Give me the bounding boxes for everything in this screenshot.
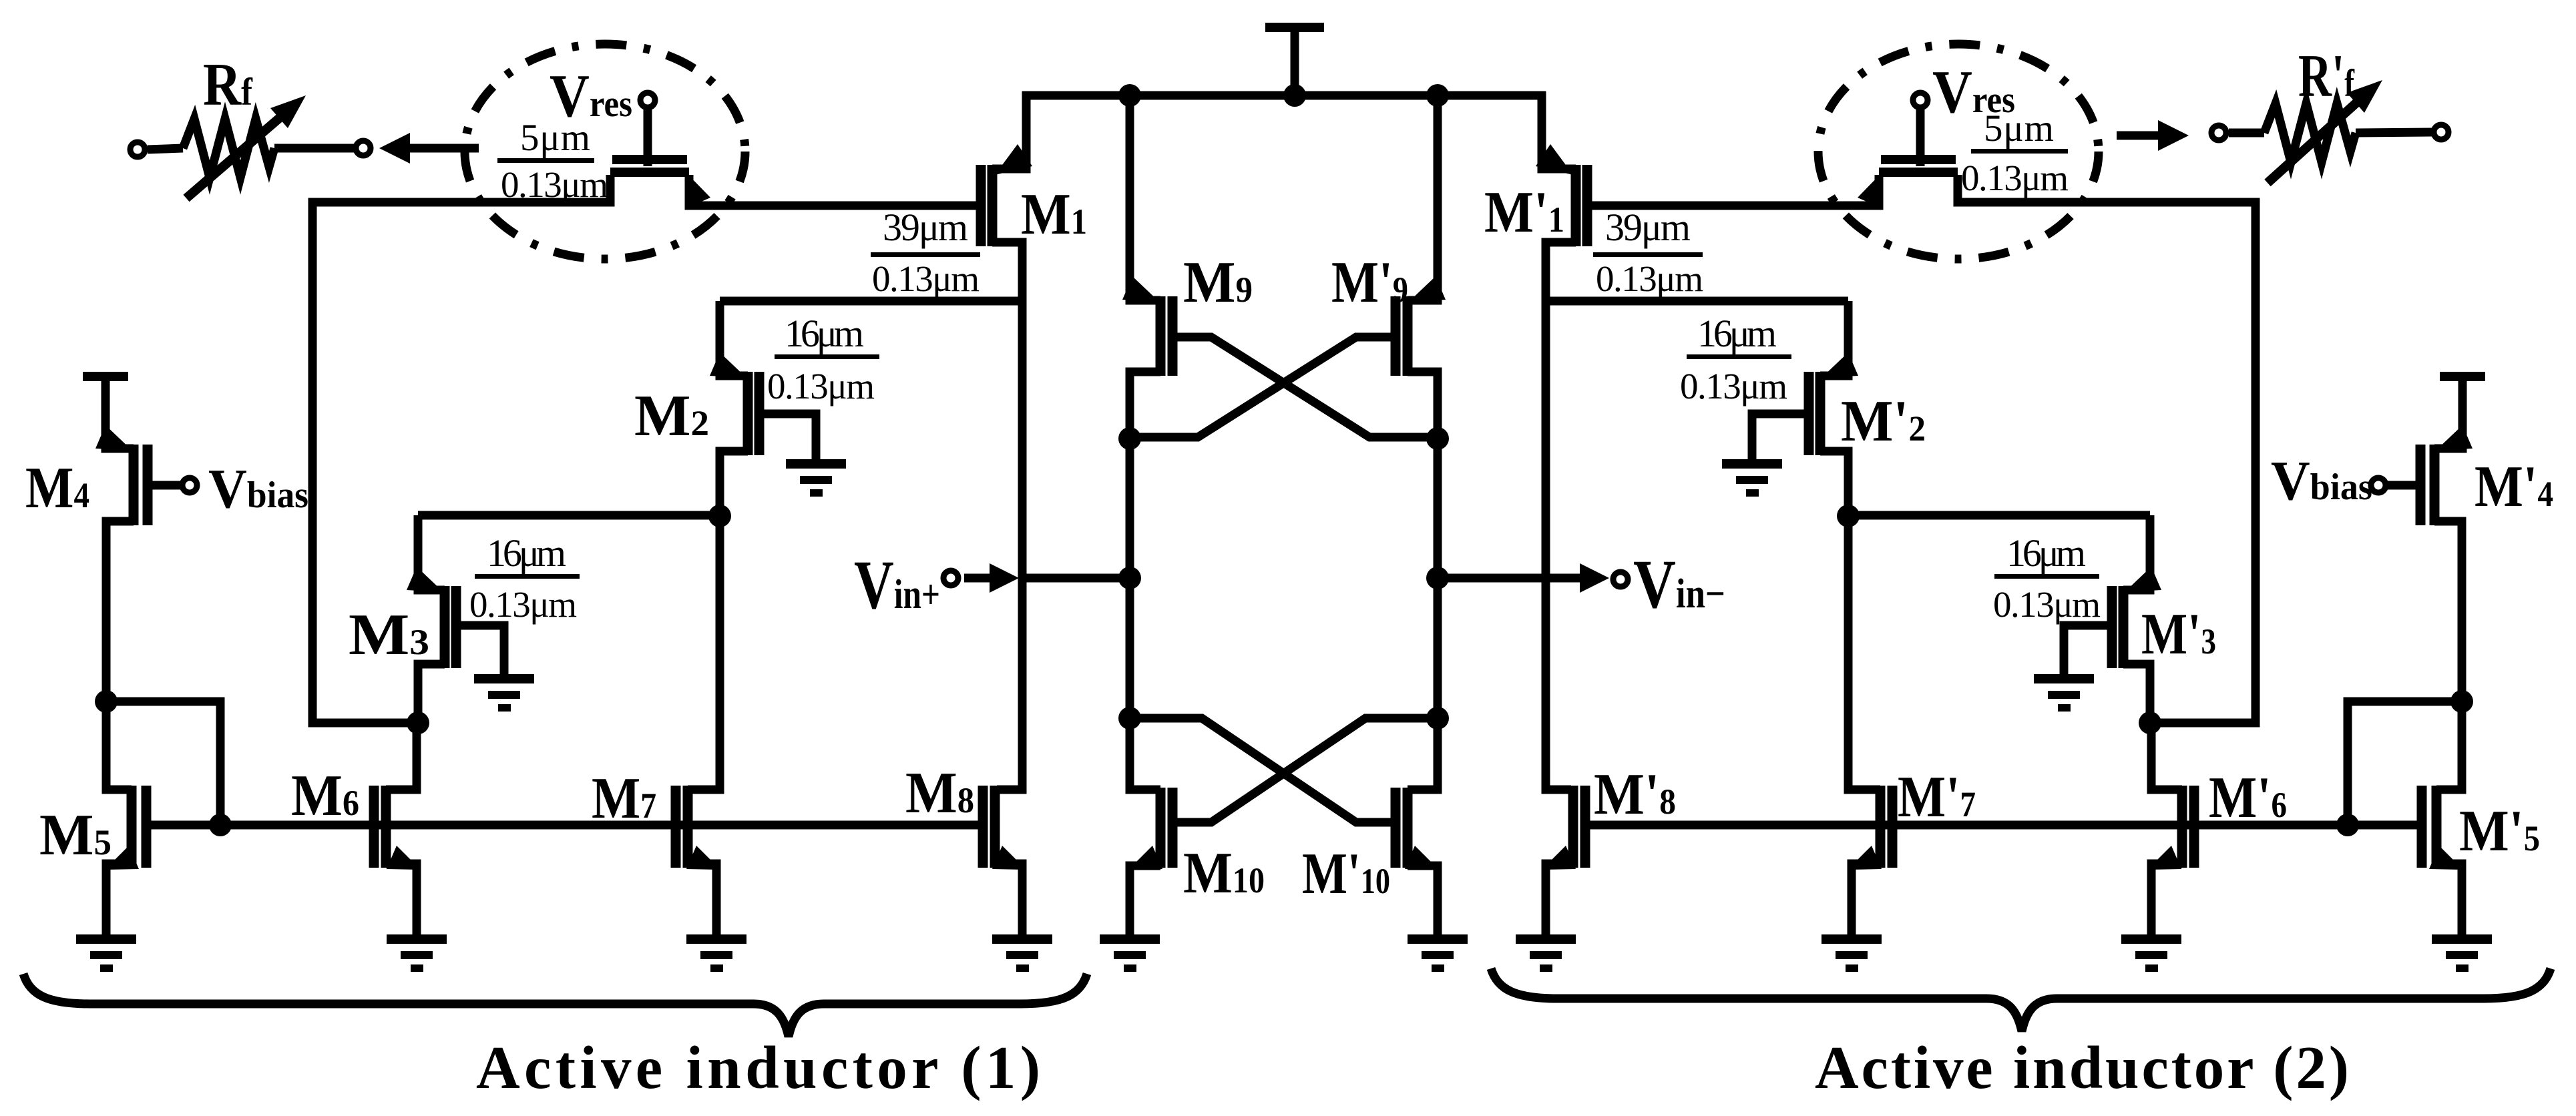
wire M'4 drain to gate bus <box>2348 702 2462 825</box>
arrow M'5 source (NMOS) <box>2429 846 2463 870</box>
arrow M'10 source (NMOS) <box>1405 846 1439 870</box>
arrow Vres-right source (PMOS) <box>1858 172 1882 208</box>
wire M'10 source to ground <box>1408 866 1438 934</box>
value label M'1 L 0.13um <box>1596 258 1703 299</box>
junction gate bus right <box>2336 814 2359 836</box>
wire Vin+ node stub to M1 drain line <box>1022 574 1130 583</box>
value label M3 L 0.13um <box>469 584 577 625</box>
transistor M7 body <box>676 786 688 868</box>
arrow pointing left to Rf <box>379 133 479 164</box>
ground M'3 gate <box>2034 674 2094 712</box>
fraction line Vres-right <box>1971 149 2068 154</box>
arrow M'2 source (PMOS) <box>1821 352 1858 378</box>
terminal Vbias left <box>182 478 197 493</box>
wire Vres-left drain feedback loop to node A <box>312 175 610 723</box>
caption Active inductor (2) <box>1815 1034 2349 1101</box>
wire M'2 gate to ground <box>1752 414 1809 462</box>
wire gate bus left (M5..M8 gates) <box>146 821 983 830</box>
svg-text:16μm: 16μm <box>2006 531 2086 575</box>
ground M7 <box>686 934 746 972</box>
value label M'3 W 16um <box>2006 531 2086 575</box>
value label Vres-left W 5um <box>520 117 590 159</box>
arrow Vres-left source (PMOS) <box>686 172 710 208</box>
arrow M7 source (NMOS) <box>686 846 720 870</box>
wire M1 source to VDD rail <box>992 91 1026 169</box>
value label M3 W 16um <box>487 531 566 575</box>
brace Active inductor (1) <box>23 974 1087 1037</box>
label M'5 <box>2459 799 2540 864</box>
transistor M1 body <box>981 165 992 246</box>
ground M6 <box>387 934 447 972</box>
wire M2 drain to node <box>720 451 748 516</box>
label M3 <box>349 603 429 667</box>
wire M7 drain to M2 drain node <box>688 516 720 790</box>
junction M'4 drain node <box>2450 690 2473 713</box>
wire M4 drain to node <box>106 521 134 702</box>
terminal Rf right <box>356 141 371 156</box>
arrow M2 source (PMOS) <box>710 352 746 378</box>
power VDD supply symbol <box>1265 27 1324 95</box>
wire M9 drain to node <box>1130 372 1160 439</box>
svg-text:0.13μm: 0.13μm <box>767 366 875 406</box>
value label M1 W 39um <box>883 206 968 249</box>
svg-text:16μm: 16μm <box>487 531 566 575</box>
ground M10 <box>1100 934 1160 972</box>
wire M'10 drain from node <box>1408 718 1438 790</box>
arrow M'7 source (NMOS) <box>1848 846 1882 870</box>
wire Vres-left gate stem <box>644 107 652 166</box>
transistor M3 body <box>445 586 456 668</box>
wire M9 drain to Vin+ node <box>1126 439 1134 578</box>
wire Vres-right source to M'1 gate <box>1587 175 1879 206</box>
wire M'1 source to VDD rail <box>1542 91 1576 169</box>
caption Active inductor (1) <box>476 1034 1040 1101</box>
wire Vres-right gate stem <box>1916 107 1925 166</box>
terminal R'f right <box>2434 125 2448 139</box>
value label M2 L 0.13um <box>767 366 875 406</box>
wire M10 gate cross-coupled to M'10 drain <box>1172 718 1438 822</box>
brace Active inductor (2) <box>1491 968 2551 1031</box>
wire M1 drain down to M8 drain <box>992 242 1022 790</box>
wire M3 source from top wire <box>418 515 445 590</box>
junction M'9 drain node <box>1426 427 1449 450</box>
fraction line M'1 <box>1593 252 1703 257</box>
fraction line Vres-left <box>497 158 594 163</box>
wire M3 drain to node A <box>418 664 445 723</box>
junction rail-VDD stem <box>1283 84 1306 107</box>
wire M2 drain-top to M1 drain <box>720 297 1022 306</box>
label M1 <box>1021 182 1087 247</box>
arrow M'6 source (NMOS) <box>2147 846 2181 870</box>
label M'2 <box>1841 389 1926 454</box>
wire M'8 source to ground <box>1546 864 1573 934</box>
wire M'7 source to ground <box>1852 864 1880 934</box>
junction M'10 drain node <box>1426 707 1449 730</box>
svg-text:39μm: 39μm <box>1605 206 1691 249</box>
wire Vres-right drain feedback loop to node A' <box>1958 175 2256 723</box>
terminal Vres-right <box>1913 93 1928 107</box>
wire gate bus right (M'8..M'5 gates) <box>1585 821 2422 830</box>
ground M'7 <box>1821 934 1882 972</box>
transistor M6 body <box>374 786 386 868</box>
ground M2 gate <box>786 459 846 497</box>
svg-text:0.13μm: 0.13μm <box>469 584 577 625</box>
transistor M'2 body <box>1809 372 1820 455</box>
wire M'3 drain to node A' <box>2123 664 2150 723</box>
transistor M10 body <box>1160 788 1172 868</box>
wire M'4 gate to Vbias terminal <box>2388 481 2420 490</box>
ground M3 gate <box>474 674 534 712</box>
transistor M9 body <box>1160 296 1172 376</box>
arrow Rf variable (diagonal) <box>186 95 306 198</box>
wire Vres-left source to M1 gate <box>689 175 981 206</box>
label M5 <box>39 803 112 868</box>
value label Vres-left L 0.13um <box>501 164 608 205</box>
wire M'7 drain to M'2 drain node <box>1848 516 1880 790</box>
terminal Vin- <box>1613 572 1628 587</box>
label M'10 <box>1302 842 1390 906</box>
fraction line M'3 <box>1994 574 2099 579</box>
junction node A (M3 drain / feedback / M6 drain) <box>407 712 429 734</box>
wire M4 drain to gate bus <box>106 702 220 825</box>
wire M4 source step <box>105 441 134 449</box>
transistor M'10 body <box>1396 788 1408 868</box>
arrow M1 source (PMOS) <box>995 144 1032 175</box>
value label M2 W 16um <box>785 312 864 355</box>
label M6 <box>291 764 359 828</box>
transistor M'3 body <box>2112 586 2123 668</box>
terminal Vbias right <box>2371 478 2386 493</box>
label Vres-left <box>550 62 632 129</box>
arrow M'9 source (PMOS) <box>1409 276 1446 302</box>
terminal Rf left <box>130 142 145 157</box>
junction M'2 drain node <box>1837 505 1860 527</box>
svg-text:39μm: 39μm <box>883 206 968 249</box>
ground M'5 <box>2432 934 2492 972</box>
transistor Vres-right body (horizontal) <box>1879 160 1958 172</box>
ground M'6 <box>2121 934 2181 972</box>
ground M5 <box>76 934 136 972</box>
arrow M3 source (PMOS) <box>407 567 443 592</box>
arrow M8 source (NMOS) <box>992 846 1026 870</box>
resistor R'f body <box>2229 103 2432 162</box>
svg-text:0.13μm: 0.13μm <box>1993 584 2101 625</box>
fraction line M'2 <box>1687 354 1791 359</box>
wire M'1 drain down to M'8 drain <box>1546 242 1576 790</box>
wire M2 source from top wire <box>720 301 748 376</box>
wire M'10 gate cross-coupled to M10 drain <box>1130 718 1396 822</box>
wire M9 gate cross-coupled to M'9 drain <box>1172 337 1438 437</box>
label M'3 <box>2141 602 2216 667</box>
transistor M4 body <box>134 445 148 525</box>
wire M4 gate to Vbias terminal <box>148 481 180 490</box>
wire M9 source from rail <box>1130 95 1160 300</box>
svg-text:0.13μm: 0.13μm <box>1961 158 2069 198</box>
transistor M8 body <box>983 786 995 868</box>
wire Vin- node stub to M'1 drain line <box>1438 574 1546 583</box>
arrow M6 source (NMOS) <box>387 846 421 870</box>
ground M'8 <box>1516 934 1576 972</box>
wire M3 top to M2 drain node <box>418 511 720 520</box>
ground M'2 gate <box>1722 459 1782 497</box>
wire M'3 top to M'2 drain node <box>1848 511 2150 520</box>
ellipse Vres-left highlight <box>465 44 745 259</box>
label Rf <box>203 51 253 118</box>
terminal Vin+ <box>943 571 958 585</box>
wire M'5 drain from M'4 node <box>2436 702 2462 790</box>
power VDD symbol M'4 <box>2440 376 2485 446</box>
wire Vin+ node down to M10 drain <box>1126 578 1134 718</box>
wire M'2 drain-top to M'1 drain <box>1546 297 1848 306</box>
arrow M4 source (PMOS) <box>95 425 132 451</box>
arrow Vin+ input <box>964 563 1019 593</box>
arrow M'4 source (PMOS) <box>2436 425 2473 451</box>
svg-text:5μm: 5μm <box>520 117 590 159</box>
label M'1 <box>1484 180 1564 245</box>
svg-text:0.13μm: 0.13μm <box>501 164 608 205</box>
junction Vin+ node <box>1118 567 1141 589</box>
value label M'3 L 0.13um <box>1993 584 2101 625</box>
label Vbias left <box>208 458 308 520</box>
transistor M'6 body <box>2182 786 2194 868</box>
wire M10 drain from node <box>1130 718 1160 790</box>
wire VDD rail (M1 source to M'1 source) <box>1022 91 1546 100</box>
junction M4 drain node <box>95 690 118 713</box>
value label M'2 W 16um <box>1697 312 1777 355</box>
arrow M10 source (NMOS) <box>1128 846 1162 870</box>
wire M8 source to ground <box>995 864 1022 934</box>
label M'4 <box>2475 455 2553 519</box>
wire M'4 drain to node <box>2434 521 2462 702</box>
wire M'2 drain to node <box>1820 451 1848 516</box>
label Vres-right <box>1932 58 2015 125</box>
ground M'10 <box>1408 934 1468 972</box>
transistor M'1 body <box>1576 165 1587 246</box>
power VDD symbol M4 <box>83 376 128 446</box>
svg-text:16μm: 16μm <box>785 312 864 355</box>
wire M'4 source step <box>2434 441 2462 449</box>
label Vin- <box>1633 546 1725 623</box>
transistor M'5 body <box>2422 786 2436 868</box>
label M'8 <box>1594 762 1676 827</box>
label M'6 <box>2209 766 2287 830</box>
value label Vres-right W 5um <box>1984 107 2054 150</box>
junction Vin- node <box>1426 567 1449 589</box>
wire M'9 drain to node <box>1408 372 1438 439</box>
junction M2 drain node <box>708 505 731 527</box>
transistor M2 body <box>748 372 759 455</box>
arrow M'8 source (NMOS) <box>1542 846 1576 870</box>
arrow M5 source (NMOS) <box>105 846 139 870</box>
value label M'2 L 0.13um <box>1680 366 1787 406</box>
wire M'6 drain to node A' <box>2151 723 2182 790</box>
arrow M9 source (PMOS) <box>1122 276 1159 302</box>
transistor M'4 body <box>2420 445 2434 525</box>
junction node A' (M'3 drain / feedback / M'6 drain) <box>2139 712 2161 734</box>
transistor M'9 body <box>1396 296 1408 376</box>
resistor Rf body <box>148 119 354 178</box>
label M2 <box>634 384 709 449</box>
arrow Vin- input <box>1550 563 1609 593</box>
wire M'5 source to ground <box>2436 864 2462 934</box>
transistor M'7 body <box>1880 786 1892 868</box>
wire M'9 drain to Vin- node <box>1434 439 1442 578</box>
wire M'9 source from rail <box>1408 95 1438 300</box>
junction rail-M9 source <box>1118 84 1141 107</box>
value label Vres-right L 0.13um <box>1961 158 2069 198</box>
svg-text:5μm: 5μm <box>1984 107 2054 150</box>
wire M7 source to ground <box>688 864 716 934</box>
label M8 <box>905 761 974 826</box>
label Vin+ <box>854 547 940 623</box>
wire M'3 source from top wire <box>2123 515 2150 590</box>
ground M8 <box>992 934 1052 972</box>
wire M2 gate to ground <box>759 414 816 462</box>
svg-text:16μm: 16μm <box>1697 312 1777 355</box>
value label M'1 W 39um <box>1605 206 1691 249</box>
arrow M'3 source (PMOS) <box>2125 567 2161 592</box>
junction M10 drain node <box>1118 707 1141 730</box>
wire M5 drain from M4 node <box>106 702 132 790</box>
label M'9 <box>1331 250 1408 315</box>
svg-text:0.13μm: 0.13μm <box>872 258 980 299</box>
junction rail-M'9 source <box>1426 84 1449 107</box>
label R'f <box>2298 42 2355 109</box>
arrow R'f variable (diagonal) <box>2268 80 2382 183</box>
label M10 <box>1183 841 1265 906</box>
terminal Vres-left <box>640 93 655 107</box>
wire M10 source to ground <box>1130 866 1160 934</box>
arrow pointing right to R'f <box>2117 120 2189 151</box>
svg-text:Active inductor (2): Active inductor (2) <box>1815 1034 2349 1101</box>
wire M6 drain to node A <box>386 723 417 790</box>
label Vbias right <box>2271 450 2372 512</box>
transistor Vres-left body (horizontal) <box>610 160 689 172</box>
fraction line M2 <box>775 354 879 359</box>
wire M'2 source from top wire <box>1820 301 1848 376</box>
label M7 <box>592 766 656 831</box>
wire M'6 source to ground <box>2151 864 2182 934</box>
wire M5 source to ground <box>106 864 132 934</box>
junction gate bus left <box>209 814 232 836</box>
svg-text:0.13μm: 0.13μm <box>1680 366 1787 406</box>
label M9 <box>1183 250 1253 315</box>
fraction line M3 <box>475 574 580 579</box>
wire M'9 gate cross-coupled to M9 drain <box>1130 337 1396 437</box>
ellipse Vres-right highlight <box>1818 44 2099 259</box>
wire M'3 gate to ground <box>2064 625 2112 677</box>
junction M9 drain node <box>1118 427 1141 450</box>
transistor M5 body <box>132 786 146 868</box>
label M'7 <box>1898 765 1976 830</box>
svg-text:Active inductor (1): Active inductor (1) <box>476 1034 1040 1101</box>
fraction line M1 <box>871 252 980 257</box>
wire M6 source to ground <box>386 864 417 934</box>
svg-text:0.13μm: 0.13μm <box>1596 258 1703 299</box>
wire Vin- node down to M'10 drain <box>1434 578 1442 718</box>
terminal R'f left <box>2211 125 2226 140</box>
value label M1 L 0.13um <box>872 258 980 299</box>
label M4 <box>25 456 89 521</box>
transistor M'8 body <box>1573 786 1585 868</box>
arrow M'1 source (PMOS) <box>1536 144 1573 175</box>
wire M3 gate to ground <box>456 625 504 677</box>
